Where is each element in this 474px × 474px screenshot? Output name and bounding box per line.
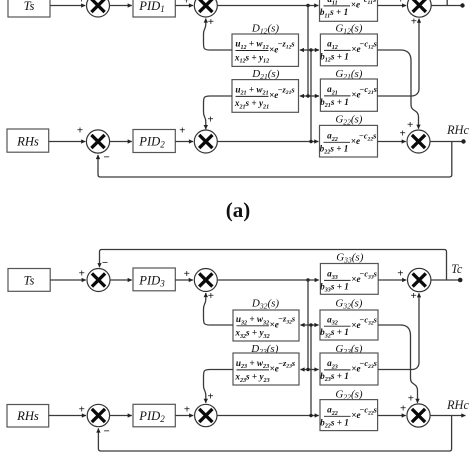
- wire Ts to sum X1b: [50, 279, 86, 281]
- wire v3 vertical tap down: [307, 280, 309, 370]
- block D32: [233, 310, 299, 341]
- wire X1a to PID1: [110, 5, 132, 7]
- block G33: [320, 264, 378, 295]
- wire v2 vertical tap up (b): [310, 325, 312, 416]
- block G22 (a): [320, 125, 378, 157]
- wire stub into D12 right: [300, 49, 311, 51]
- summing junction X4b: [87, 404, 109, 426]
- node tap dot row 96: [306, 94, 309, 97]
- node Tc end dot (a): [460, 3, 464, 7]
- svg-text:RHs: RHs: [16, 409, 39, 423]
- wire stub into G21 left: [308, 95, 319, 97]
- svg-text:Ts: Ts: [24, 273, 35, 287]
- wire X3a output Tc: [431, 5, 461, 7]
- wire stub into G32 left: [308, 324, 319, 326]
- node Tc end dot (b): [458, 278, 463, 283]
- wire X1b to PID3: [110, 279, 132, 281]
- wire X5b to G22 (b): [217, 415, 319, 417]
- wire D21 output to X5a top: [204, 96, 233, 129]
- svg-text:Ts: Ts: [24, 0, 35, 13]
- svg-text:RHc: RHc: [446, 398, 470, 412]
- wire feedback (b) top from output to X1b: [100, 250, 447, 281]
- wire G21 output up to X3a: [377, 19, 419, 96]
- wire X4a to PID2: [110, 141, 132, 143]
- node v1 tap junction: [306, 4, 309, 7]
- wire v2 vertical tap up: [310, 50, 312, 142]
- wire D23 output to X5b top: [204, 370, 234, 403]
- summing junction X6a: [407, 130, 430, 153]
- wire feedback (b) bottom from output to X4b: [98, 416, 451, 452]
- block PID3: [133, 268, 175, 291]
- wire stub into G12 left: [308, 49, 319, 51]
- wire X6b output RHc: [430, 415, 465, 417]
- svg-text:+: +: [400, 403, 406, 415]
- wire stub into G23 left: [308, 369, 319, 371]
- summing junction X2b: [194, 269, 217, 292]
- wire RHs to X4b: [49, 415, 86, 417]
- svg-text:+: +: [208, 290, 214, 302]
- node tap dot row 50: [309, 48, 312, 51]
- wire PID2 to X5b: [175, 415, 193, 417]
- svg-text:−: −: [103, 151, 109, 163]
- svg-text:+: +: [77, 125, 83, 137]
- wire PID1 to sum X2a: [175, 5, 193, 7]
- summing junction X1a: [87, 0, 110, 17]
- node tap dot RH row (a): [309, 140, 312, 143]
- summing junction X5b: [195, 404, 217, 426]
- wire RHs to X4a: [49, 141, 86, 143]
- node v3 tap junction: [306, 278, 309, 281]
- svg-text:+: +: [184, 404, 190, 416]
- block D12: [232, 34, 299, 66]
- summing junction X3b: [408, 268, 431, 291]
- wire G33 to sum X3b: [378, 279, 406, 281]
- wire X3b output Tc: [431, 279, 458, 281]
- block Ts (a): [8, 0, 50, 17]
- svg-text:+: +: [79, 268, 85, 280]
- svg-text:+: +: [399, 128, 405, 140]
- wire Ts to sum X1a: [50, 5, 85, 7]
- block D23: [233, 353, 299, 385]
- svg-text:+: +: [398, 0, 404, 6]
- summing junction X4a: [86, 130, 109, 153]
- summing junction X2a: [194, 0, 217, 17]
- node tap dot RH row (b): [309, 414, 312, 417]
- wire PID3 to X2b: [175, 279, 193, 281]
- wire v1 vertical tap down: [307, 6, 309, 97]
- block G22 (b): [320, 400, 378, 431]
- wire X5a to G22 (a): [217, 141, 318, 143]
- svg-text:+: +: [183, 0, 189, 6]
- block RHs (a): [7, 129, 49, 152]
- svg-text:RHc: RHc: [446, 123, 470, 137]
- block G12: [320, 34, 377, 66]
- node tap dot row 369: [306, 368, 309, 371]
- block G23: [320, 353, 378, 385]
- wire stub into D23 right: [300, 369, 311, 371]
- svg-text:+: +: [410, 290, 416, 302]
- svg-text:+: +: [397, 267, 403, 279]
- block PID2 (b): [133, 404, 175, 427]
- wire stub into D21 right: [300, 95, 311, 97]
- block PID1: [133, 0, 175, 17]
- summing junction X1b: [87, 269, 110, 292]
- node RHc end dot (a): [461, 139, 465, 143]
- block G32: [320, 310, 378, 340]
- block PID2 (a): [133, 130, 175, 153]
- wire G23 output up to X3b: [378, 293, 419, 369]
- svg-text:+: +: [411, 15, 417, 27]
- summing junction X3a: [407, 0, 431, 17]
- wire G11 to sum X3a: [378, 5, 407, 7]
- wire D12 output to X2a bottom: [204, 19, 233, 51]
- summing junction X5a: [194, 130, 217, 153]
- wire feedback tick at 447 (a, cropped): [446, 0, 448, 6]
- svg-text:Tc: Tc: [451, 262, 463, 276]
- wire X2a to block G11: [217, 5, 318, 7]
- svg-text:+: +: [79, 404, 85, 416]
- svg-text:(a): (a): [226, 198, 251, 222]
- block G21: [320, 79, 377, 111]
- svg-text:+: +: [207, 113, 213, 125]
- svg-text:−: −: [103, 426, 109, 438]
- wire X2b to block G33: [217, 279, 318, 281]
- wire G22 to X6a: [378, 141, 406, 143]
- block Ts (b): [8, 269, 50, 292]
- summing junction X6b: [407, 404, 430, 427]
- wire feedback (a) from output to X4a: [98, 142, 452, 178]
- wire G22 to X6b: [378, 415, 406, 417]
- svg-text:+: +: [407, 119, 413, 131]
- wire stub into D32 right: [300, 324, 311, 326]
- svg-text:−: −: [102, 257, 108, 269]
- block RHs (b): [7, 405, 49, 428]
- wire X4b to PID2 (b): [110, 415, 132, 417]
- node tap dot row 325: [309, 323, 312, 326]
- wire D32 output to X2b bottom: [204, 293, 234, 325]
- svg-text:+: +: [208, 16, 214, 28]
- svg-text:+: +: [78, 0, 84, 6]
- wire X6a output RHc: [430, 141, 463, 143]
- block D21: [232, 80, 299, 113]
- svg-text:+: +: [207, 391, 213, 403]
- wire G12 output down to X6a: [377, 50, 418, 129]
- block G11: [320, 0, 378, 21]
- svg-text:RHs: RHs: [16, 134, 39, 148]
- wire PID2 to X5a: [175, 141, 193, 143]
- svg-text:+: +: [184, 268, 190, 280]
- wire G32 output down to X6b: [378, 325, 418, 403]
- svg-text:+: +: [408, 393, 414, 405]
- svg-text:+: +: [179, 125, 185, 137]
